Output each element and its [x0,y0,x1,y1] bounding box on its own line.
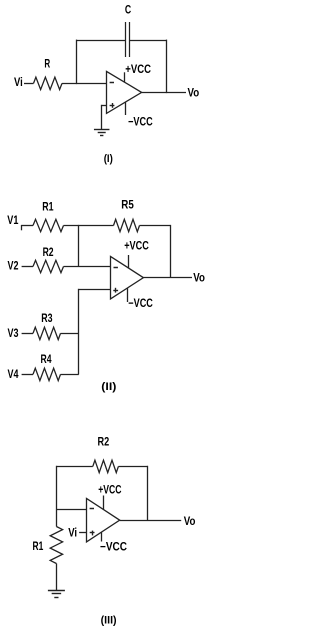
op-amp U3 non-inverting mark [90,531,95,536]
op-amp U2 triangle [111,256,144,299]
wire feedback right vertical I [166,40,168,94]
wire Vi to R [24,83,34,85]
wire summing junction vertical [78,225,80,267]
op-amp U1 triangle [107,71,142,113]
wire -VCC stub I [125,102,127,115]
svg-text:V1: V1 [7,213,18,227]
resistor R4 label [41,352,52,366]
label +VCC I [125,62,151,76]
svg-text:+VCC: +VCC [125,62,151,76]
svg-text:V2: V2 [8,259,19,273]
svg-text:R3: R3 [41,311,53,325]
resistor R1 [33,219,64,231]
wire non-inverting input to ground I [102,105,107,107]
svg-text:+VCC: +VCC [124,239,149,253]
op-amp U2 non-inverting mark [113,288,118,293]
svg-text:R: R [44,57,50,71]
op-amp U3 triangle [87,498,120,542]
svg-text:C: C [125,2,132,16]
svg-text:R2: R2 [43,245,54,259]
resistor R3 label [41,311,53,325]
svg-text:Vi: Vi [14,75,23,89]
wire non-inverting input II [79,289,111,291]
svg-text:R4: R4 [41,352,52,366]
node Vo label III [184,514,196,528]
wire V1 to R1 [21,225,33,227]
resistor R4 [33,368,61,380]
svg-text:(III): (III) [101,614,117,626]
wire R to op-amp inverting input [62,83,106,85]
wire feedback top-left III [56,466,92,468]
resistor R1 III label [33,539,44,553]
capacitor C label [125,2,132,16]
label -VCC I [128,115,153,129]
caption (III) [101,614,117,626]
resistor R3 [33,327,61,339]
node Vi label III [68,525,77,539]
svg-text:−VCC: −VCC [128,296,153,310]
resistor R1 label [42,199,54,213]
label -VCC II [128,296,153,310]
capacitor C right plate [129,22,131,57]
node V3 label [8,326,19,340]
svg-text:Vo: Vo [184,514,196,528]
wire V4 to R4 [22,374,33,376]
wire +VCC stub III [103,496,105,510]
wire R1 to R5 [64,225,114,227]
caption (II) [101,381,116,393]
svg-text:V4: V4 [8,367,19,381]
svg-text:(II): (II) [101,381,116,393]
wire R1 to ground III [56,564,58,591]
label -VCC III [100,540,127,554]
wire feedback top-right III [118,466,147,468]
resistor R2 label [43,245,54,259]
node Vi label I [14,75,23,89]
wire -VCC stub II [127,288,129,302]
wire inverting input III [56,509,87,511]
wire V2 to R2 [22,266,33,268]
wire feedback left vertical III [56,466,58,527]
resistor R2 III [93,460,119,472]
svg-text:R1: R1 [33,539,44,553]
op-amp U2 inverting mark [114,267,118,269]
wire feedback top-left I [77,40,126,42]
resistor R5 [114,219,140,231]
wire V1 tick [21,225,23,230]
wire V3 to R3 [22,333,33,335]
wire R2 to op-amp inverting input [64,266,111,268]
node V2 label [8,259,19,273]
svg-text:(I): (I) [104,153,113,165]
node V1 label [7,213,18,227]
wire feedback left vertical I [76,40,78,85]
wire feedback right vertical III [147,466,149,520]
svg-text:−VCC: −VCC [128,115,153,129]
op-amp U3 inverting mark [90,508,94,510]
wire V3-V4 junction vertical [78,289,80,375]
svg-text:R2: R2 [98,434,110,448]
wire +VCC stub I [124,72,126,82]
resistor R5 label [121,198,134,212]
wire output II [143,277,192,279]
wire ground vertical I [101,105,103,130]
label +VCC II [124,239,149,253]
svg-text:Vo: Vo [193,270,205,284]
wire output I [142,92,186,94]
resistor R2 III label [98,434,110,448]
op-amp U1 inverting mark [110,82,114,84]
caption (I) [104,153,113,165]
wire feedback right vertical II [170,225,172,278]
svg-text:+VCC: +VCC [98,482,122,496]
label +VCC III [98,482,122,496]
resistor R2 [33,260,64,272]
svg-text:R5: R5 [121,198,134,212]
node Vo label II [193,270,205,284]
wire +VCC stub II [128,255,130,269]
svg-text:−VCC: −VCC [100,540,127,554]
wire -VCC stub III [101,532,103,541]
svg-text:V3: V3 [8,326,19,340]
wire Vi stub III [79,532,87,534]
resistor R [34,77,63,89]
wire R5 to corner [140,225,171,227]
svg-text:Vo: Vo [188,86,200,100]
svg-text:Vi: Vi [68,525,77,539]
op-amp U1 non-inverting mark [110,103,115,108]
resistor R label [44,57,50,71]
wire R4 to junction [61,374,79,376]
ground I [94,130,110,136]
wire feedback top-right I [130,40,167,42]
ground III [48,591,65,598]
wire output III [120,520,182,522]
capacitor C left plate [125,22,127,57]
svg-text:R1: R1 [42,199,54,213]
resistor R1 III [50,527,62,564]
wire R3 to junction [61,333,79,335]
node Vo label I [188,86,200,100]
node V4 label [8,367,19,381]
